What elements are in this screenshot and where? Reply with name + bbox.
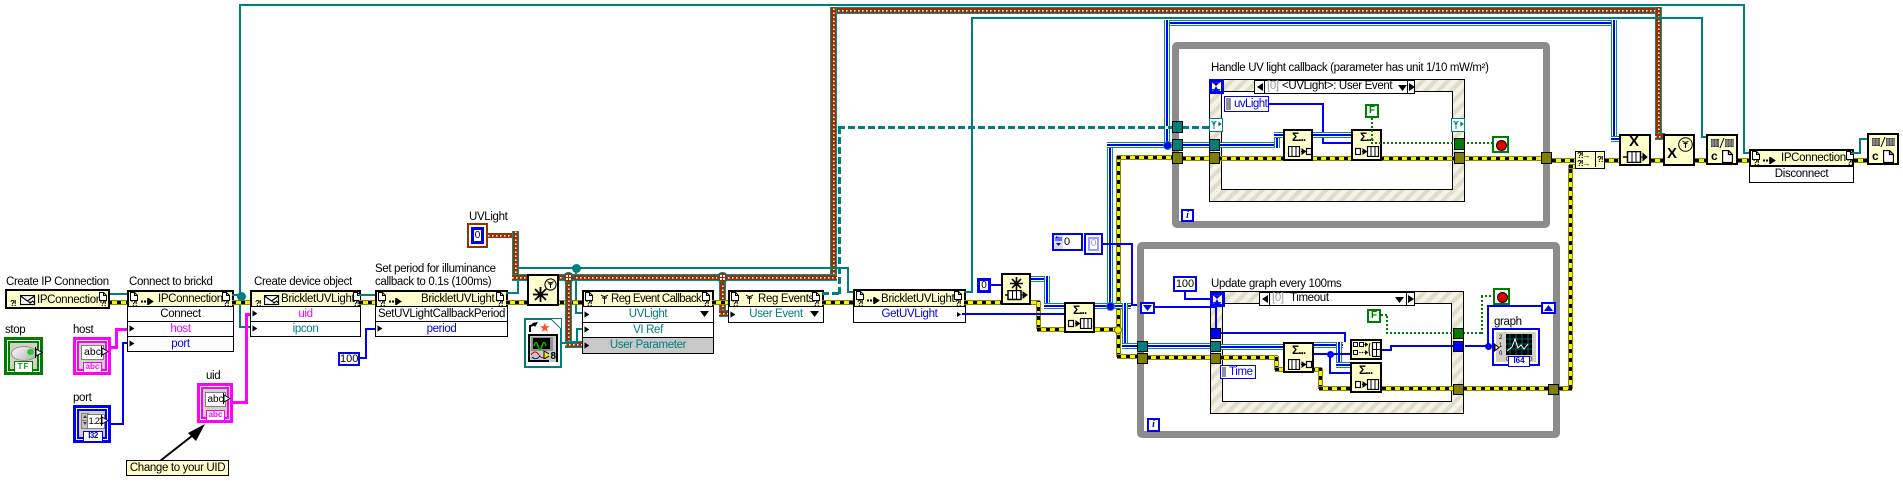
wire green dotted F to tunnel — [1371, 118, 1373, 144]
wire teal into disconnect — [1743, 152, 1750, 154]
wire blue-array riser V2 — [1164, 20, 1170, 145]
wire teal block1 to block2 — [108, 293, 128, 295]
wire error inside lower ES — [1220, 356, 1278, 359]
node UVLight user event type constant — [467, 223, 488, 248]
wire teal2 top run (device out of GetUVLight) — [971, 17, 1703, 19]
node BrickletUVLight constructor — [250, 290, 361, 308]
node upper build-array — [1351, 129, 1382, 161]
wire error block1 to block2 — [108, 301, 128, 304]
node Connect (invoke) block — [127, 290, 234, 308]
node UVLight label — [469, 211, 507, 224]
node timeout terminal upper — [1209, 79, 1224, 94]
wire error RegEvents to GetUVLight — [822, 301, 853, 304]
wire error release to destroy — [1651, 159, 1663, 162]
wire composite loop tunnel to ES tunnel (lower) — [1147, 343, 1213, 349]
tunnel lower ES right blue — [1453, 341, 1464, 352]
node Create device object label — [254, 276, 352, 289]
tunnel lower ES right error — [1453, 384, 1464, 395]
node close reference 2 — [1867, 133, 1899, 165]
node merge errors — [1575, 151, 1605, 169]
wire error down to lower loop — [1117, 332, 1120, 357]
node stop label — [5, 324, 25, 337]
wire blue SR to ES tunnel — [1155, 306, 1217, 308]
node stop boolean terminal — [4, 337, 43, 375]
junction blue dot at loop entry — [1163, 141, 1172, 150]
pin period row input — [377, 325, 383, 332]
pin User Event row input — [730, 311, 736, 318]
junction teal dot UVLight branch — [572, 264, 581, 273]
junction maroon X at UserParameter branch — [563, 272, 574, 283]
node VI Ref row — [582, 322, 714, 338]
label handle uv callback — [1211, 62, 1489, 75]
wire composite into upper loop tunnel — [1167, 142, 1179, 148]
pin host row input — [129, 325, 135, 332]
wire error merge to release node — [1605, 159, 1619, 162]
node lower delete-from-array (A) — [1283, 342, 1314, 373]
wire maroon from UVLight constant — [488, 233, 517, 238]
wire blue array const to shift register — [1103, 243, 1133, 245]
structure lower ES header selector — [1259, 292, 1415, 306]
loop lower while border — [1137, 242, 1560, 438]
wire user-event maroon riser at x830 — [830, 7, 837, 274]
node host string control — [73, 337, 111, 375]
node Time event data — [1220, 365, 1256, 379]
wire teal Connect out to junction — [232, 294, 240, 296]
wire error inside upper ES — [1182, 157, 1454, 160]
wire blue 0 to array node — [991, 284, 1001, 286]
node uvLight event data — [1224, 96, 1269, 112]
wire error RegEventCallback to RegEvents — [712, 301, 730, 304]
tunnel lower ES right bool — [1453, 328, 1464, 339]
wire blue GetUVLight value to build array — [962, 313, 1065, 315]
pin uid row input — [252, 310, 258, 317]
wire teal IPConnection main run (top) — [239, 4, 1745, 6]
wire blue node A out branches — [1313, 353, 1351, 355]
wire teal2 riser — [971, 17, 973, 293]
node stop sign upper — [1492, 136, 1509, 153]
wire teal2 down to close-ref node — [1701, 17, 1703, 137]
node ipcon row — [250, 321, 361, 337]
node destroy user event — [1663, 134, 1695, 166]
wire error up to upper loop — [1117, 156, 1120, 328]
wire composite array out of rotate node — [1031, 276, 1050, 282]
wire pink uid to block3 — [233, 401, 246, 404]
node graph terminal — [1492, 328, 1540, 366]
node SetUVLightCallbackPeriod invoke block — [375, 290, 508, 308]
structure lower event structure — [1210, 291, 1464, 414]
wire teal down to Disconnect — [1743, 4, 1745, 154]
wire maroon down to User Parameter row — [565, 280, 572, 346]
node F constant upper — [1365, 104, 1379, 118]
node Disconnect row — [1749, 166, 1854, 183]
node port row — [127, 336, 234, 352]
wire composite ES tunnel to node A — [1220, 344, 1284, 350]
node port numeric control — [73, 405, 111, 443]
node build array — [1064, 302, 1095, 333]
node close reference 1 — [1706, 134, 1738, 165]
annotation Change to your UID — [126, 460, 229, 476]
pin User Parameter row input — [584, 342, 590, 349]
junction blue dot graph — [1485, 343, 1492, 350]
tunnel lower ES left array — [1210, 341, 1221, 352]
wire blue 100 to timeout — [1184, 292, 1186, 300]
wire composite node A out to node C — [1313, 342, 1343, 348]
tunnel upper loop right error — [1541, 152, 1552, 164]
wire error block2 to block3 — [232, 301, 250, 304]
node Reg Event Callback block — [582, 290, 714, 308]
node Disconnect invoke block — [1749, 149, 1854, 167]
tunnel upper loop left array — [1172, 139, 1183, 151]
wire error ES to loop tunnel (lower right) — [1463, 387, 1551, 390]
wire blue uvLight to node — [1268, 103, 1324, 105]
node host label — [73, 324, 93, 337]
wire composite V1 riser — [1107, 142, 1113, 307]
tunnel lower loop left error — [1137, 353, 1148, 364]
wire blue tunnel to graph — [1465, 345, 1492, 347]
node 100 constant lower — [1173, 276, 1197, 292]
wire error close1 to disconnect — [1738, 159, 1749, 162]
wire error block3 to block4 — [359, 301, 377, 304]
node iteration terminal upper — [1181, 209, 1194, 222]
junction teal dot at Connect output — [237, 292, 246, 301]
wire teal block4 out up and right — [506, 292, 519, 294]
wire blue up to SR right — [1487, 305, 1489, 346]
wire composite out of build array — [1095, 303, 1131, 309]
tunnel lower loop left array — [1137, 341, 1148, 352]
svg-text:2: 2 — [1499, 335, 1503, 341]
pin UVLight row input — [584, 311, 590, 318]
node period row — [375, 321, 508, 337]
node GetUVLight row — [853, 306, 966, 323]
wire event-reg dashed out of Reg Events — [822, 292, 841, 295]
tunnel upper loop left event-reg — [1172, 121, 1183, 133]
loop upper while border — [1172, 42, 1550, 228]
tunnel lower ES left error — [1210, 353, 1221, 364]
node upper delete-from-array — [1283, 129, 1313, 161]
wire error GetUVLight right then down (behind build array) — [964, 301, 1040, 304]
pin port row input — [129, 340, 135, 347]
junction blue dot node A out — [1327, 351, 1334, 358]
node SetUVLightCallbackPeriod row — [375, 306, 508, 322]
wire teal VI ref to VI Ref row — [562, 342, 578, 344]
wire green dotted F to tunnel (lower) — [1381, 314, 1388, 316]
junction maroon X at UserEvent branch — [717, 272, 728, 283]
node UVLight row (dropdown) — [582, 306, 714, 323]
node port label — [73, 392, 91, 405]
node rotate-array (sun/array) — [1001, 273, 1031, 305]
wire user-event maroon top run — [830, 7, 1662, 14]
node timeout terminal lower — [1210, 292, 1225, 307]
wire green dotted tunnel to stop (lower) — [1463, 332, 1483, 334]
node Set period label line2 — [375, 276, 491, 289]
pin GetUVLight output — [957, 311, 962, 318]
node uid row — [250, 306, 361, 322]
wire error lower loop up to merge — [1559, 387, 1572, 390]
node shift register right — [1541, 302, 1556, 314]
wire green dotted tunnel to stop — [1463, 142, 1493, 144]
tunnel upper ES right bool — [1454, 138, 1465, 150]
tunnel upper ES right error — [1454, 152, 1465, 164]
tunnel upper ES left event-reg — [1209, 118, 1223, 132]
wire teal2 elbow from GetUVLight — [964, 291, 973, 293]
tunnel upper ES left error — [1209, 152, 1220, 164]
wire dashed event-reg tunnel to ES — [1182, 126, 1212, 129]
wire teal block3 to block4 — [359, 294, 377, 296]
wire error destroy to close1 — [1695, 159, 1706, 162]
wire maroon horizontal run to riser — [512, 274, 837, 281]
node array constant 0 — [1052, 233, 1083, 251]
node uid string control — [197, 383, 233, 423]
node iteration terminal lower — [1147, 418, 1160, 432]
wire maroon down to User Event row — [719, 280, 726, 315]
wire blue node B out to tunnel — [1382, 349, 1392, 351]
structure upper event structure — [1209, 79, 1465, 202]
wire blue-array top run — [1164, 20, 1617, 26]
node 100 constant — [338, 352, 360, 366]
wire teal down to GetUVLight — [847, 267, 849, 293]
node Reg Events block — [728, 290, 824, 308]
node release queue — [1619, 134, 1651, 166]
node host row — [127, 321, 234, 337]
wire error ES right to loop tunnel — [1460, 157, 1548, 160]
node Connect to brickd label — [129, 276, 213, 289]
tunnel upper ES right event-reg — [1451, 118, 1465, 132]
node User Event row — [728, 306, 824, 323]
node sun VI (create user event) — [527, 274, 559, 306]
node lower build-array (C) — [1350, 362, 1382, 393]
structure upper ES header selector — [1254, 80, 1415, 94]
wire composite tunnel to node — [1182, 142, 1277, 148]
wire pink host to block2 — [111, 346, 118, 349]
annotation arrow to uid — [155, 424, 215, 464]
node Set period label line1 — [375, 263, 496, 276]
wire blue tunnel to insert node (inside ES) — [1220, 332, 1346, 334]
node static VI reference — [524, 318, 562, 368]
wire blue-array down to release node — [1611, 20, 1617, 138]
wire teal riser from Connect junction — [239, 4, 241, 296]
wire blue 100 to period — [360, 357, 367, 359]
wire teal junction down to ipcon — [239, 296, 241, 327]
node GetUVLight invoke block — [853, 289, 966, 308]
pin VI Ref row input — [584, 326, 590, 333]
pin ipcon row input — [252, 325, 258, 332]
tunnel lower loop right error — [1548, 384, 1559, 395]
node uid label — [206, 370, 220, 383]
node Create IP Connection label — [6, 276, 109, 289]
tunnel upper loop left error — [1172, 152, 1183, 164]
wire composite node1 to node2 — [1313, 132, 1351, 138]
node lower insert-into-array (B) — [1350, 339, 1382, 360]
wire teal down to UVLight row — [575, 270, 577, 314]
node stop sign lower — [1493, 288, 1510, 305]
wire error disconnect to close2 — [1854, 159, 1867, 162]
tunnel lower ES left blue — [1210, 328, 1221, 339]
wire composite down into lower loop — [1122, 303, 1128, 349]
node User Parameter row — [582, 337, 714, 354]
wire blue port to block2 — [111, 423, 124, 425]
junction blue dot — [1106, 302, 1115, 311]
node 0 constant (index) — [977, 278, 991, 293]
wire user-event maroon down to Destroy node — [1655, 7, 1662, 138]
node shift register left — [1140, 302, 1155, 314]
tunnel upper ES left array — [1209, 139, 1220, 151]
junction error dot — [1114, 326, 1122, 334]
label update graph — [1211, 278, 1341, 291]
wire error loop tunnel to merge — [1552, 159, 1575, 162]
node F constant lower — [1367, 309, 1381, 323]
wire error loop tunnel to ES tunnel (lower) — [1147, 356, 1213, 359]
node Connect method row — [127, 306, 234, 322]
wire error block4 to RegEventCallback (behind sun VI) — [506, 301, 584, 304]
node Create IP Connection (IPConnection constructor) — [5, 289, 110, 309]
node graph label — [1494, 316, 1522, 329]
wire teal disconnect out to close2 — [1852, 152, 1861, 154]
